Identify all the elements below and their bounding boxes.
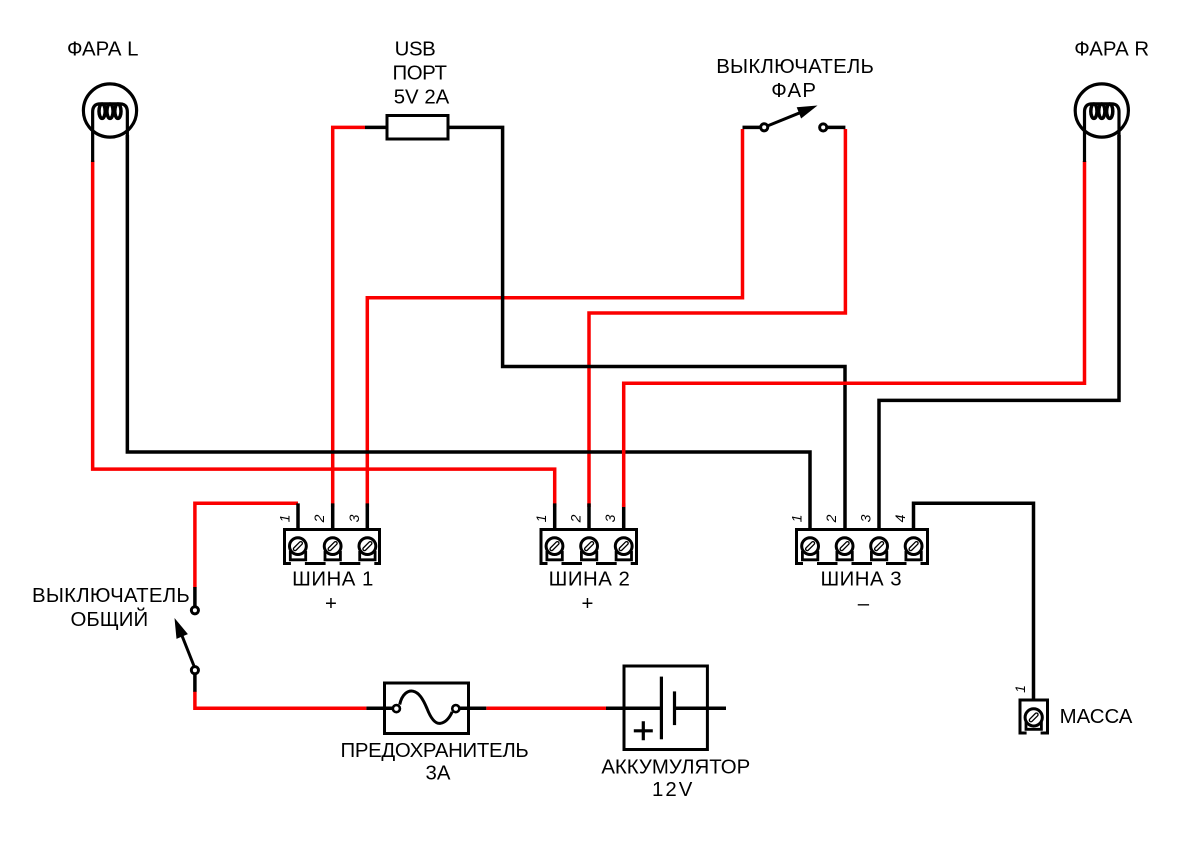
- stubs: fuse pins: [366, 707, 486, 711]
- svg-text:1: 1: [1012, 685, 1028, 693]
- stubs: ВЫКЛЮЧАТЕЛЬ ОБЩИЙ: [193, 587, 197, 692]
- wire: ФАРА L red leg to ШИНА2 pin1: [93, 161, 555, 508]
- svg-text:ПОРТ: ПОРТ: [392, 63, 446, 85]
- МАССА block body: [1020, 700, 1048, 733]
- ШИНА1 notches: [291, 561, 374, 567]
- wire: ШИНА3 pin4 to МАССА: [914, 503, 1034, 700]
- svg-text:ШИНА 1: ШИНА 1: [292, 569, 374, 591]
- svg-text:ШИНА 2: ШИНА 2: [549, 569, 631, 591]
- switch ФАР contact right: [820, 124, 827, 131]
- battery long plate: [660, 677, 663, 740]
- switch ФАР lever: [768, 112, 801, 126]
- USB port rect: [387, 116, 448, 140]
- battery box: [624, 666, 707, 750]
- stubs: ШИНА2 pins: [555, 503, 624, 529]
- wire: ВЫКЛЮЧАТЕЛЬ ФАР left to ШИНА1 pin3: [367, 129, 742, 507]
- ШИНА2 pin numbers: [533, 514, 618, 523]
- svg-text:1: 1: [789, 515, 805, 523]
- svg-text:ФАР: ФАР: [771, 80, 817, 102]
- svg-text:МАССА: МАССА: [1060, 706, 1133, 728]
- ШИНА2 block body: [541, 530, 637, 564]
- lamp circle L: [83, 84, 136, 137]
- stubs: ВЫКЛЮЧАТЕЛЬ ФАР: [743, 126, 846, 130]
- ШИНА3 pin numbers: [789, 514, 909, 523]
- stubs: battery pins: [606, 707, 726, 711]
- ШИНА3 screws: [802, 538, 922, 555]
- switch ОБЩИЙ contact bottom: [191, 667, 198, 674]
- ШИНА2 screws: [546, 538, 632, 555]
- svg-text:1: 1: [533, 515, 549, 523]
- svg-text:2: 2: [568, 514, 584, 523]
- ШИНА1 brackets: [290, 551, 375, 560]
- ШИНА1 screws: [290, 538, 376, 555]
- ШИНА3 brackets: [802, 551, 921, 560]
- svg-text:3: 3: [602, 514, 618, 522]
- МАССА bracket: [1026, 722, 1041, 729]
- wire: ПРЕДОХРАНИТЕЛЬ to АККУМУЛЯТОР: [486, 707, 606, 711]
- battery plus sign: [634, 721, 653, 740]
- МАССА notch: [1027, 731, 1041, 737]
- svg-text:USB: USB: [395, 39, 436, 61]
- wire: USB port right to ШИНА3 pin2: [449, 127, 845, 528]
- svg-text:4: 4: [892, 514, 908, 522]
- ШИНА3 block body: [797, 530, 928, 564]
- stubs: ШИНА1 pins: [298, 503, 367, 529]
- svg-text:ФАРА L: ФАРА L: [67, 39, 139, 61]
- fuse wave: [400, 691, 453, 723]
- svg-text:ШИНА 3: ШИНА 3: [820, 569, 902, 591]
- switch ОБЩИЙ lever: [182, 635, 195, 667]
- fuse contact left: [393, 705, 400, 712]
- svg-text:1: 1: [277, 515, 293, 523]
- wire: ФАРА R black leg to ШИНА3 pin3: [879, 135, 1119, 528]
- lamp legs+top R: [1085, 104, 1120, 162]
- lamp coil loops R: [1091, 104, 1097, 118]
- wire: ВЫКЛЮЧАТЕЛЬ ФАР right to ШИНА2 pin2: [589, 129, 845, 507]
- ШИНА1 pin numbers: [277, 514, 362, 523]
- svg-text:ВЫКЛЮЧАТЕЛЬ: ВЫКЛЮЧАТЕЛЬ: [32, 585, 190, 607]
- svg-text:ФАРА R: ФАРА R: [1074, 39, 1149, 61]
- lamp coil loops L: [99, 104, 105, 118]
- svg-text:2: 2: [823, 514, 839, 523]
- ШИНА3 notches: [803, 561, 921, 567]
- svg-text:2: 2: [311, 514, 327, 523]
- switch ОБЩИЙ arrowhead: [175, 618, 188, 639]
- wire: ФАРА R red leg to ШИНА2 pin3 (drawn over black): [624, 161, 1085, 507]
- wire: ВЫКЛЮЧАТЕЛЬ ОБЩИЙ bottom to ПРЕДОХРАНИТЕЛЬ: [195, 691, 367, 708]
- lamp legs+top L: [93, 104, 128, 162]
- svg-text:12V: 12V: [652, 779, 694, 801]
- svg-text:ПРЕДОХРАНИТЕЛЬ: ПРЕДОХРАНИТЕЛЬ: [340, 740, 528, 762]
- ШИНА2 brackets: [547, 551, 632, 560]
- svg-text:3А: 3А: [426, 762, 451, 784]
- svg-text:+: +: [582, 593, 594, 615]
- svg-text:АККУМУЛЯТОР: АККУМУЛЯТОР: [601, 756, 750, 778]
- wire: ШИНА1 pin1 to ВЫКЛЮЧАТЕЛЬ ОБЩИЙ top: [195, 503, 298, 587]
- fuse body rect: [385, 683, 469, 734]
- svg-text:+: +: [325, 593, 337, 615]
- svg-text:ОБЩИЙ: ОБЩИЙ: [70, 607, 148, 631]
- switch ФАР contact left: [761, 124, 768, 131]
- switch ОБЩИЙ contact top: [191, 607, 198, 614]
- svg-text:5V 2A: 5V 2A: [394, 87, 450, 109]
- wire: ФАРА L black leg to ШИНА3 pin1: [127, 135, 810, 528]
- svg-text:ВЫКЛЮЧАТЕЛЬ: ВЫКЛЮЧАТЕЛЬ: [716, 56, 874, 78]
- ШИНА1 block body: [285, 530, 380, 564]
- lamp circle R: [1075, 84, 1128, 137]
- ШИНА2 notches: [548, 561, 631, 567]
- switch ФАР arrowhead: [797, 106, 818, 119]
- svg-text:3: 3: [858, 514, 874, 522]
- battery short plate: [673, 691, 676, 725]
- stub: USB left pin: [365, 126, 388, 130]
- svg-text:–: –: [858, 593, 870, 615]
- fuse contact right: [452, 705, 459, 712]
- МАССА screw: [1025, 709, 1042, 726]
- svg-text:3: 3: [346, 514, 362, 522]
- wire: USB port left to ШИНА1 pin2: [333, 127, 365, 507]
